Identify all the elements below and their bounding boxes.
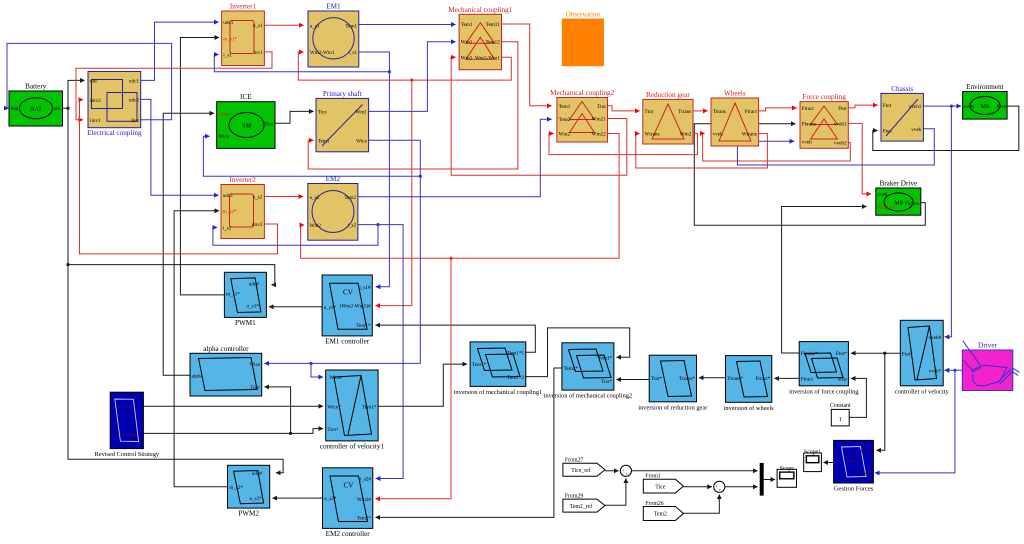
svg-text:Constant: Constant	[830, 403, 851, 409]
svg-text:ICE T (Nm): ICE T (Nm)	[120, 432, 136, 436]
accumulation block Chassis	[881, 85, 923, 141]
wire: Mechanical-coupling1.Wm2-Wm1 to EM1 and EM1-controller	[298, 52, 511, 306]
svg-text:(Wm2-Wm1)#: (Wm2-Wm1)#	[340, 303, 371, 310]
svg-text:BAT: BAT	[30, 106, 42, 113]
wire: Mechanical-coupling2.Wm21 to Mechanical-coupling1.Wm2	[451, 57, 627, 175]
svg-text:u_s1*: u_s1*	[324, 305, 337, 311]
goto/from tag From27	[563, 458, 605, 477]
control block EM1 controller	[322, 275, 372, 345]
machine block EM1	[308, 3, 359, 68]
svg-text:Inverter2: Inverter2	[230, 176, 257, 184]
svg-text:From29: From29	[565, 494, 583, 500]
svg-text:Ftract*: Ftract*	[755, 376, 770, 382]
svg-text:PWM1: PWM1	[235, 319, 256, 327]
svg-text:Ftract: Ftract	[802, 106, 815, 112]
svg-text:Fbrake: Fbrake	[905, 201, 920, 207]
svg-text:PWM2: PWM2	[238, 510, 259, 518]
control block inversion of mechanical coupling2	[544, 343, 633, 400]
svg-text:SM: SM	[242, 122, 252, 129]
svg-text:Ftract: Ftract	[745, 109, 758, 115]
svg-text:Tem1*: Tem1*	[362, 405, 377, 411]
svg-text:Wtrans: Wtrans	[645, 132, 660, 138]
wire: inversion-of-reduction-gear.Ttot* to inversion-of-mechanical-coupling2.Ttot*	[617, 379, 650, 381]
svg-text:Tem2_ref: Tem2_ref	[570, 503, 593, 510]
wire: Chassis.vveh to Force-coupling.vveh	[737, 129, 934, 165]
svg-text:Ttrans*: Ttrans*	[727, 376, 743, 382]
svg-text:Wm2: Wm2	[680, 132, 692, 138]
svg-text:Gestion Forces: Gestion Forces	[834, 486, 874, 493]
svg-text:m_s2*: m_s2*	[223, 209, 237, 215]
svg-text:udc1: udc1	[223, 20, 233, 26]
svg-text:Tem2*: Tem2*	[564, 366, 579, 372]
svg-text:udc2: udc2	[129, 97, 139, 103]
svg-text:Wm2#: Wm2#	[357, 497, 372, 503]
svg-text:inversion of mechanical coupli: inversion of mechanical coupling1	[454, 389, 543, 396]
wire: Mechanical-coupling1.Tem11 to Mechanical-coupling2.Tem1	[502, 24, 552, 106]
svg-text:Scope: Scope	[780, 466, 795, 472]
svg-text:udc#: udc#	[249, 282, 259, 288]
svg-text:vveh: vveh	[964, 104, 974, 110]
wire: inversion-of-force-coupling.Fbrake* to Braker-Drive.Fbrake*	[782, 207, 867, 354]
conversion block Wheels	[711, 90, 759, 147]
svg-text:vveh#: vveh#	[929, 335, 942, 341]
converter block Inverter2	[221, 176, 264, 239]
wire: Electrical-coupling.udc2 to Inverter2.udc2	[141, 99, 219, 195]
wire: Constant to inversion-of-force-coupling.krep	[849, 378, 866, 417]
svg-text:i_s2: i_s2	[347, 223, 356, 229]
wire: inversion-of-mechanical-coupling1.Tem1*1 to EM1-controller.Tem1*	[376, 325, 536, 352]
wire: From1 Tice to Sum2	[683, 486, 711, 488]
svg-text:Driver: Driver	[978, 342, 997, 350]
svg-text:EM1 controller: EM1 controller	[325, 337, 370, 345]
svg-text:Wm22: Wm22	[592, 132, 607, 138]
svg-text:EM2 controller: EM2 controller	[326, 530, 371, 538]
conversion block Reduction gear	[643, 91, 693, 144]
svg-text:Environment: Environment	[966, 83, 1004, 91]
svg-text:Tem1*: Tem1*	[598, 355, 613, 361]
svg-text:vveh*: vveh*	[859, 471, 872, 477]
wire: Force-coupling.Ftot to Chassis.Ftot	[848, 105, 877, 108]
svg-text:alpha: alpha	[192, 373, 204, 379]
svg-text:vveh*: vveh*	[929, 369, 942, 375]
wire: controller-of-velocity1.Tem1* to inversion-of-mechanical-coupling1	[378, 364, 467, 406]
svg-text:Ttot: Ttot	[645, 109, 654, 115]
wire: Sum2 to Mux	[725, 486, 758, 488]
wire: Reduction-gear.Wtot to Mechanical-coupling2.Wm2	[549, 134, 698, 155]
svg-text:iinv1: iinv1	[90, 118, 101, 124]
svg-text:Braker Drive: Braker Drive	[879, 180, 917, 188]
wire: Electrical-coupling.ibat to Battery.ibat	[7, 43, 172, 119]
svg-text:Tice: Tice	[264, 121, 274, 127]
control block controller of velocity1	[320, 370, 385, 450]
svg-text:Tem1*: Tem1*	[356, 323, 371, 329]
goto/from tag From26	[643, 501, 683, 521]
svg-text:Wice: Wice	[218, 134, 229, 140]
svg-text:Tem2*: Tem2*	[357, 515, 372, 521]
svg-text:Tice_ref: Tice_ref	[571, 467, 590, 474]
svg-text:Battery: Battery	[25, 83, 47, 91]
svg-text:Ftot: Ftot	[883, 103, 892, 109]
svg-text:Revised Control Strategy: Revised Control Strategy	[94, 451, 159, 458]
wire: Force-coupling.vveh1 to Braker-Drive.vveh	[848, 123, 871, 193]
wire: EM1-controller.u_s1* to PWM1.u_s1*	[269, 306, 322, 308]
control block PWM2	[228, 465, 270, 517]
svg-text:ibat: ibat	[11, 106, 19, 112]
svg-text:Ttot*: Ttot*	[601, 379, 613, 385]
source block ICE	[217, 93, 275, 148]
svg-text:Wheels: Wheels	[724, 90, 746, 98]
svg-text:Wm2: Wm2	[559, 132, 571, 138]
svg-text:Reduction gear: Reduction gear	[646, 91, 690, 99]
scope Scope1	[804, 450, 822, 472]
svg-text:Tem2: Tem2	[559, 117, 571, 123]
wire: Inverter1.u_s1 to EM1.u_s1	[264, 24, 303, 26]
svg-text:udc#: udc#	[252, 471, 262, 477]
svg-text:Fbrake: Fbrake	[802, 122, 817, 128]
source block Battery	[9, 83, 63, 127]
wire: EM2.i_s2 to Inverter2.i_s2 and EM2-controller.i_s2#	[213, 223, 403, 479]
svg-text:u_s1*: u_s1*	[246, 303, 259, 309]
wire: Electrical-coupling.udc1 to Inverter1.udc1	[141, 22, 219, 80]
svg-text:controller of velocity: controller of velocity	[895, 388, 950, 395]
svg-text:Wm1: Wm1	[461, 40, 473, 46]
svg-text:EM1: EM1	[326, 3, 341, 11]
svg-text:Fres: Fres	[883, 129, 892, 135]
svg-text:m_s1*: m_s1*	[226, 291, 240, 297]
wire: Chassis.vveh1 to Environment.vveh and controller-of-velocity.vveh#	[923, 105, 961, 337]
constant block Constant	[830, 403, 851, 426]
coupling block Electrical coupling	[87, 72, 142, 138]
svg-text:From26: From26	[645, 501, 663, 507]
mux Mux	[760, 463, 764, 496]
wire: Mechanical-coupling2.Wm22 to EM2.Wm2 and EM2-controller.Wm2#	[301, 134, 619, 499]
control block inversion of wheels	[724, 356, 775, 412]
svg-text:iinv2: iinv2	[252, 222, 263, 228]
svg-text:Fbrake*: Fbrake*	[801, 351, 818, 357]
svg-text:ICE W (rad/s): ICE W (rad/s)	[116, 405, 135, 409]
svg-text:Wm2-Wm1: Wm2-Wm1	[310, 50, 335, 56]
svg-text:Ttrans: Ttrans	[678, 109, 691, 115]
svg-text:Tem1*1: Tem1*1	[507, 351, 524, 357]
wire: controller-of-velocity.Ftot* to inversion-of-force-coupling.Ftot* and Gestion-Forces.Ftot*	[851, 352, 900, 451]
svg-text:udc: udc	[54, 106, 62, 112]
svg-text:CV: CV	[344, 481, 355, 489]
svg-text:vveh: vveh	[713, 131, 723, 137]
goto/from tag From1	[643, 474, 683, 493]
svg-text:From27: From27	[565, 458, 583, 464]
svg-text:m_s1*: m_s1*	[223, 36, 237, 42]
svg-text:Force coupling: Force coupling	[802, 93, 846, 101]
svg-text:Ftot*: Ftot*	[861, 449, 872, 455]
svg-text:Scope1: Scope1	[804, 450, 821, 456]
svg-text:i_s2: i_s2	[223, 226, 232, 232]
svg-text:Chassis: Chassis	[891, 85, 913, 93]
svg-text:Wice#: Wice#	[329, 375, 343, 381]
annotation block Observation	[562, 11, 603, 66]
wire: Environment.Fres to Chassis.Fres	[873, 106, 1019, 150]
svg-text:Inverter1: Inverter1	[230, 3, 257, 11]
svg-text:Tem1: Tem1	[318, 138, 330, 144]
svg-text:Tice': Tice'	[250, 385, 260, 391]
svg-text:Wice: Wice	[249, 362, 260, 368]
converter block Inverter1	[222, 3, 265, 66]
svg-text:Wm1: Wm1	[355, 109, 367, 115]
svg-text:vveh2: vveh2	[834, 141, 847, 147]
wire: From27 Tice_ref to Sum1	[605, 470, 619, 472]
svg-text:Tem1*2: Tem1*2	[507, 375, 524, 381]
svg-text:m_s2*: m_s2*	[229, 485, 243, 491]
wire: PWM1.m_s1* to Inverter1.m_s1*	[180, 38, 224, 295]
coupling block Mechanical coupling2	[550, 89, 614, 142]
svg-text:Tem12: Tem12	[485, 40, 500, 46]
svg-text:udc: udc	[90, 78, 98, 84]
svg-text:i_s1#: i_s1#	[359, 285, 371, 291]
svg-text:alpha controller: alpha controller	[203, 345, 249, 353]
wire: Inverter2.iinv2 to Electrical-coupling.iinv2	[80, 100, 278, 254]
control block inversion of reduction gear	[638, 355, 708, 411]
svg-text:alpha: alpha	[218, 111, 230, 117]
svg-text:1: 1	[839, 416, 842, 423]
control block inversion of mechanical coupling1	[446, 0, 542, 396]
sum junction Sum2	[714, 481, 725, 492]
svg-text:From1: From1	[645, 474, 661, 480]
wire: Wheels.Ftract to Force-coupling.Ftract	[759, 108, 797, 111]
wire: inversion-of-wheels.Ttrans* to inversion-of-reduction-gear.Ttrans*	[699, 377, 726, 379]
svg-text:Ftot: Ftot	[838, 106, 847, 112]
svg-text:Electrical coupling: Electrical coupling	[87, 129, 142, 137]
wire: Mechanical-coupling1.Tem12 to Primary-shaft.Tem1	[308, 42, 518, 169]
scope Scope	[777, 466, 796, 487]
svg-text:Wm2: Wm2	[461, 55, 473, 61]
wire: udc measure to PWM1.udc#	[66, 108, 274, 285]
wire: EM1.i_s1 to Inverter1.i_s1 and EM1-controller.i_s1#	[214, 52, 391, 287]
wire: ICE.Tice to Primary-shaft.Tice	[275, 111, 314, 123]
svg-text:Wice*: Wice*	[327, 405, 341, 411]
svg-text:Fbrake*: Fbrake*	[877, 205, 894, 211]
svg-text:Ttot*: Ttot*	[651, 376, 663, 382]
source block Environment	[963, 83, 1008, 119]
svg-text:Wm2-Wm1: Wm2-Wm1	[475, 55, 500, 61]
svg-text:Ttrans: Ttrans	[713, 109, 726, 115]
control block inversion of force coupling	[789, 342, 859, 396]
svg-text:Ttrans*: Ttrans*	[679, 376, 695, 382]
svg-text:u_s1: u_s1	[253, 23, 263, 29]
wire: Driver to controller-of-velocity.vveh* and Gestion-Forces.vveh*	[875, 369, 962, 473]
svg-text:inversion of force coupling: inversion of force coupling	[789, 388, 859, 395]
svg-text:Observation: Observation	[566, 11, 601, 19]
svg-text:i_s1: i_s1	[348, 50, 357, 56]
wire: Reduction-gear.Ttrans to Wheels.Ttrans	[693, 110, 708, 112]
wire: Inverter2.u_s2 to EM2.u_s2	[264, 196, 303, 198]
svg-text:udc1: udc1	[129, 78, 139, 84]
svg-text:u_s1: u_s1	[310, 23, 320, 29]
svg-text:u_s2: u_s2	[310, 195, 320, 201]
wire: Gestion-Forces.out to Scope1	[824, 462, 834, 464]
svg-text:Tice^: Tice^	[327, 427, 339, 433]
wire: EM1.Tem1 to Mechanical-coupling1.Tem1	[359, 24, 456, 26]
svg-text:Tice: Tice	[318, 109, 328, 115]
svg-text:Wm21: Wm21	[592, 117, 607, 123]
strategy block Revised Control Strategy	[94, 392, 159, 458]
wire: Mux to Scope	[764, 479, 775, 481]
svg-text:i_s1: i_s1	[223, 53, 232, 59]
wire: Sum1 to Mux	[632, 470, 758, 472]
wire: alpha-controller.alpha to ICE.alpha	[163, 113, 214, 375]
svg-text:Mechanical coupling1: Mechanical coupling1	[448, 6, 512, 14]
wire: inversion-of-force-coupling.Ftract* to inversion-of-wheels.Ftract*	[775, 377, 800, 379]
svg-text:Tice: Tice	[655, 484, 666, 490]
svg-text:i_s2#: i_s2#	[360, 477, 372, 483]
svg-text:Ftract: Ftract	[801, 376, 814, 382]
svg-text:Tem11: Tem11	[486, 22, 501, 28]
source block Braker Drive	[876, 180, 921, 216]
coupling block Mechanical coupling1	[448, 6, 512, 70]
svg-text:Tem1: Tem1	[461, 22, 473, 28]
svg-text:iinv2: iinv2	[90, 98, 101, 104]
wire: Mechanical-coupling2.Ttot to Reduction-gear.Ttot	[608, 106, 640, 111]
svg-text:Tem1: Tem1	[345, 23, 357, 29]
wire: Inverter1.inv1 to Electrical-coupling.iinv1	[76, 52, 272, 120]
wire: Wheels.Wtrans to Reduction-gear.Wtrans	[636, 134, 768, 169]
wire: EM2-controller.u_s2* to PWM2.u_s2*	[273, 497, 323, 499]
control block controller of velocity	[895, 320, 950, 395]
svg-text:u_s2*: u_s2*	[324, 496, 337, 502]
wire: Braker-Drive.Fbrake to Force-coupling.Fbrake	[694, 124, 925, 226]
svg-text:vveh: vveh	[911, 127, 921, 133]
svg-text:udc2: udc2	[223, 193, 233, 199]
wire: Battery.udc to Electrical-coupling.udc	[63, 80, 85, 109]
svg-text:vveh: vveh	[877, 192, 887, 198]
svg-text:Wtrans: Wtrans	[742, 132, 757, 138]
svg-text:ICE: ICE	[240, 93, 252, 101]
svg-text:Tem1*: Tem1*	[472, 362, 487, 368]
svg-text:vveh1: vveh1	[834, 121, 847, 127]
svg-text:u_s2: u_s2	[252, 195, 262, 201]
svg-text:K.M.C: K.M.C	[847, 459, 858, 463]
machine block EM2	[308, 175, 358, 240]
svg-text:inversion of reduction gear: inversion of reduction gear	[638, 404, 708, 411]
wire: From29 Tem2_ref to Sum1	[605, 479, 626, 506]
goto/from tag From29	[563, 494, 605, 513]
control block alpha controller	[190, 345, 262, 396]
source block Driver	[962, 341, 1019, 391]
wire: EM2.Tem2 to Mechanical-coupling2.Tem2	[358, 119, 552, 197]
wire: Force-coupling.vveh2 to Wheels.vveh	[703, 133, 851, 161]
wire: inversion-of-mechanical-coupling2.Tem2* to EM2-controller.Tem2*	[376, 368, 562, 517]
svg-text:CV: CV	[343, 289, 354, 297]
wire: PWM2.m_s2* to Inverter2.m_s2*	[174, 211, 227, 487]
svg-text:EM2: EM2	[326, 175, 341, 183]
wire: udc measure to PWM2.udc#	[68, 265, 283, 473]
svg-text:vveh: vveh	[802, 139, 812, 145]
svg-text:inversion of wheels: inversion of wheels	[724, 405, 775, 412]
svg-text:Tem2: Tem2	[344, 195, 356, 201]
wire: Revised-Control-Strategy.out2 to controller-of-velocity1.Tice^ and alpha-controller.Tice'	[143, 387, 323, 435]
svg-text:Fres: Fres	[997, 104, 1006, 110]
wire: From26 Tem2 to Sum2	[683, 495, 719, 514]
svg-text:ibat: ibat	[131, 118, 139, 124]
sum junction Sum1	[620, 465, 631, 476]
svg-text:vveh1: vveh1	[909, 104, 922, 110]
svg-text:Ftot*: Ftot*	[836, 351, 847, 357]
svg-text:Mechanical coupling2: Mechanical coupling2	[550, 89, 614, 97]
wire: Primary-shaft.Wice to ICE.Wice / alpha-controller.Wice / controller-of-velocity1.Wice#	[203, 136, 422, 377]
svg-text:MS: MS	[894, 200, 903, 206]
svg-text:Tem1: Tem1	[559, 104, 571, 110]
svg-text:MS: MS	[981, 104, 990, 110]
svg-text:Wm2: Wm2	[310, 223, 322, 229]
svg-text:u_s2*: u_s2*	[249, 496, 262, 502]
svg-text:krep: krep	[838, 376, 848, 382]
wire: Revised-Control-Strategy.out1 to controller-of-velocity1.Wice*	[143, 405, 323, 407]
svg-text:inversion of mechanical coupli: inversion of mechanical coupling2	[544, 393, 633, 400]
svg-text:Wice: Wice	[356, 138, 367, 144]
wire: inversion-of-mechanical-coupling1.Tem1*2 to inversion-of-mechanical-coupling2.Tem1*	[526, 328, 630, 377]
control block EM2 controller	[323, 468, 373, 538]
conversion block Primary shaft	[316, 90, 369, 152]
svg-text:Ftot*: Ftot*	[902, 351, 913, 357]
svg-text:Ttot: Ttot	[597, 104, 606, 110]
wire: Primary-shaft.Wm1 to Mechanical-coupling1.Wm1	[369, 42, 456, 112]
coupling block Force coupling	[800, 93, 848, 148]
strategy block Gestion Forces	[834, 440, 874, 492]
svg-text:inv1: inv1	[253, 50, 263, 56]
svg-text:Tem2: Tem2	[654, 512, 667, 518]
svg-text:controller of velocity1: controller of velocity1	[320, 442, 385, 450]
control block PWM1	[224, 272, 266, 327]
svg-text:Primary shaft: Primary shaft	[323, 90, 362, 98]
